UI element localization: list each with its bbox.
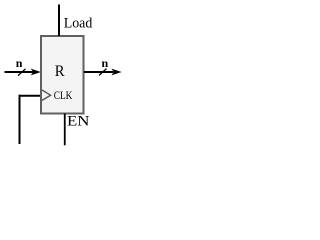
svg-text:Load: Load bbox=[64, 15, 93, 31]
wire clock vertical bbox=[19, 95, 21, 144]
wire Load (vertical into top of box) bbox=[58, 5, 60, 37]
bus-width slash (left) bbox=[18, 69, 26, 76]
clock triangle bbox=[42, 90, 51, 100]
arrowhead output bus bbox=[112, 69, 121, 75]
arrowhead input bus bbox=[32, 69, 41, 75]
svg-text:n: n bbox=[102, 56, 109, 70]
svg-text:CLK: CLK bbox=[54, 90, 73, 102]
register R box bbox=[41, 36, 84, 114]
svg-text:R: R bbox=[55, 63, 65, 80]
bus-width slash (right) bbox=[99, 69, 107, 76]
wire EN (vertical from bottom of box) bbox=[64, 114, 66, 146]
wire clock horizontal bbox=[19, 95, 41, 97]
wire output bus (right) bbox=[84, 71, 114, 73]
svg-text:n: n bbox=[16, 56, 23, 70]
wire input bus (left) bbox=[5, 71, 34, 73]
svg-text:EN: EN bbox=[67, 114, 90, 130]
